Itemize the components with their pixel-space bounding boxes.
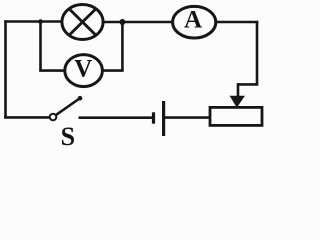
wire voltmeter branch right horizontal <box>102 69 124 72</box>
switch S <box>50 96 83 120</box>
wire right step horizontal <box>238 83 258 86</box>
lamp L1 (circle with X) <box>62 5 103 40</box>
ammeter A1 <box>173 6 216 38</box>
svg-text:A: A <box>184 7 202 34</box>
wire bottom after switch to battery <box>79 116 153 119</box>
voltmeter V1 <box>65 55 103 87</box>
junction node top-left <box>38 19 43 24</box>
rheostat R1 (resistor box) <box>210 107 262 125</box>
wire voltmeter branch left horizontal <box>39 69 65 72</box>
wire bottom-left to switch <box>4 116 49 119</box>
battery cell (short negative plate) <box>152 112 155 123</box>
svg-text:V: V <box>74 55 92 82</box>
wire lamp right to ammeter <box>103 21 173 24</box>
wire voltmeter branch left vertical <box>39 22 42 71</box>
wire top-left horizontal <box>4 20 63 23</box>
wire right vertical <box>256 21 259 85</box>
wire voltmeter branch right vertical <box>121 22 124 71</box>
svg-text:S: S <box>61 122 75 148</box>
wire battery to rheostat <box>165 116 210 119</box>
wire ammeter right <box>216 21 259 24</box>
battery cell (long positive plate) <box>162 101 165 136</box>
wire rheostat slider vertical <box>237 83 240 97</box>
junction node top-right <box>119 19 125 25</box>
rheostat slider arrowhead <box>231 96 245 107</box>
wire left vertical <box>4 20 7 118</box>
